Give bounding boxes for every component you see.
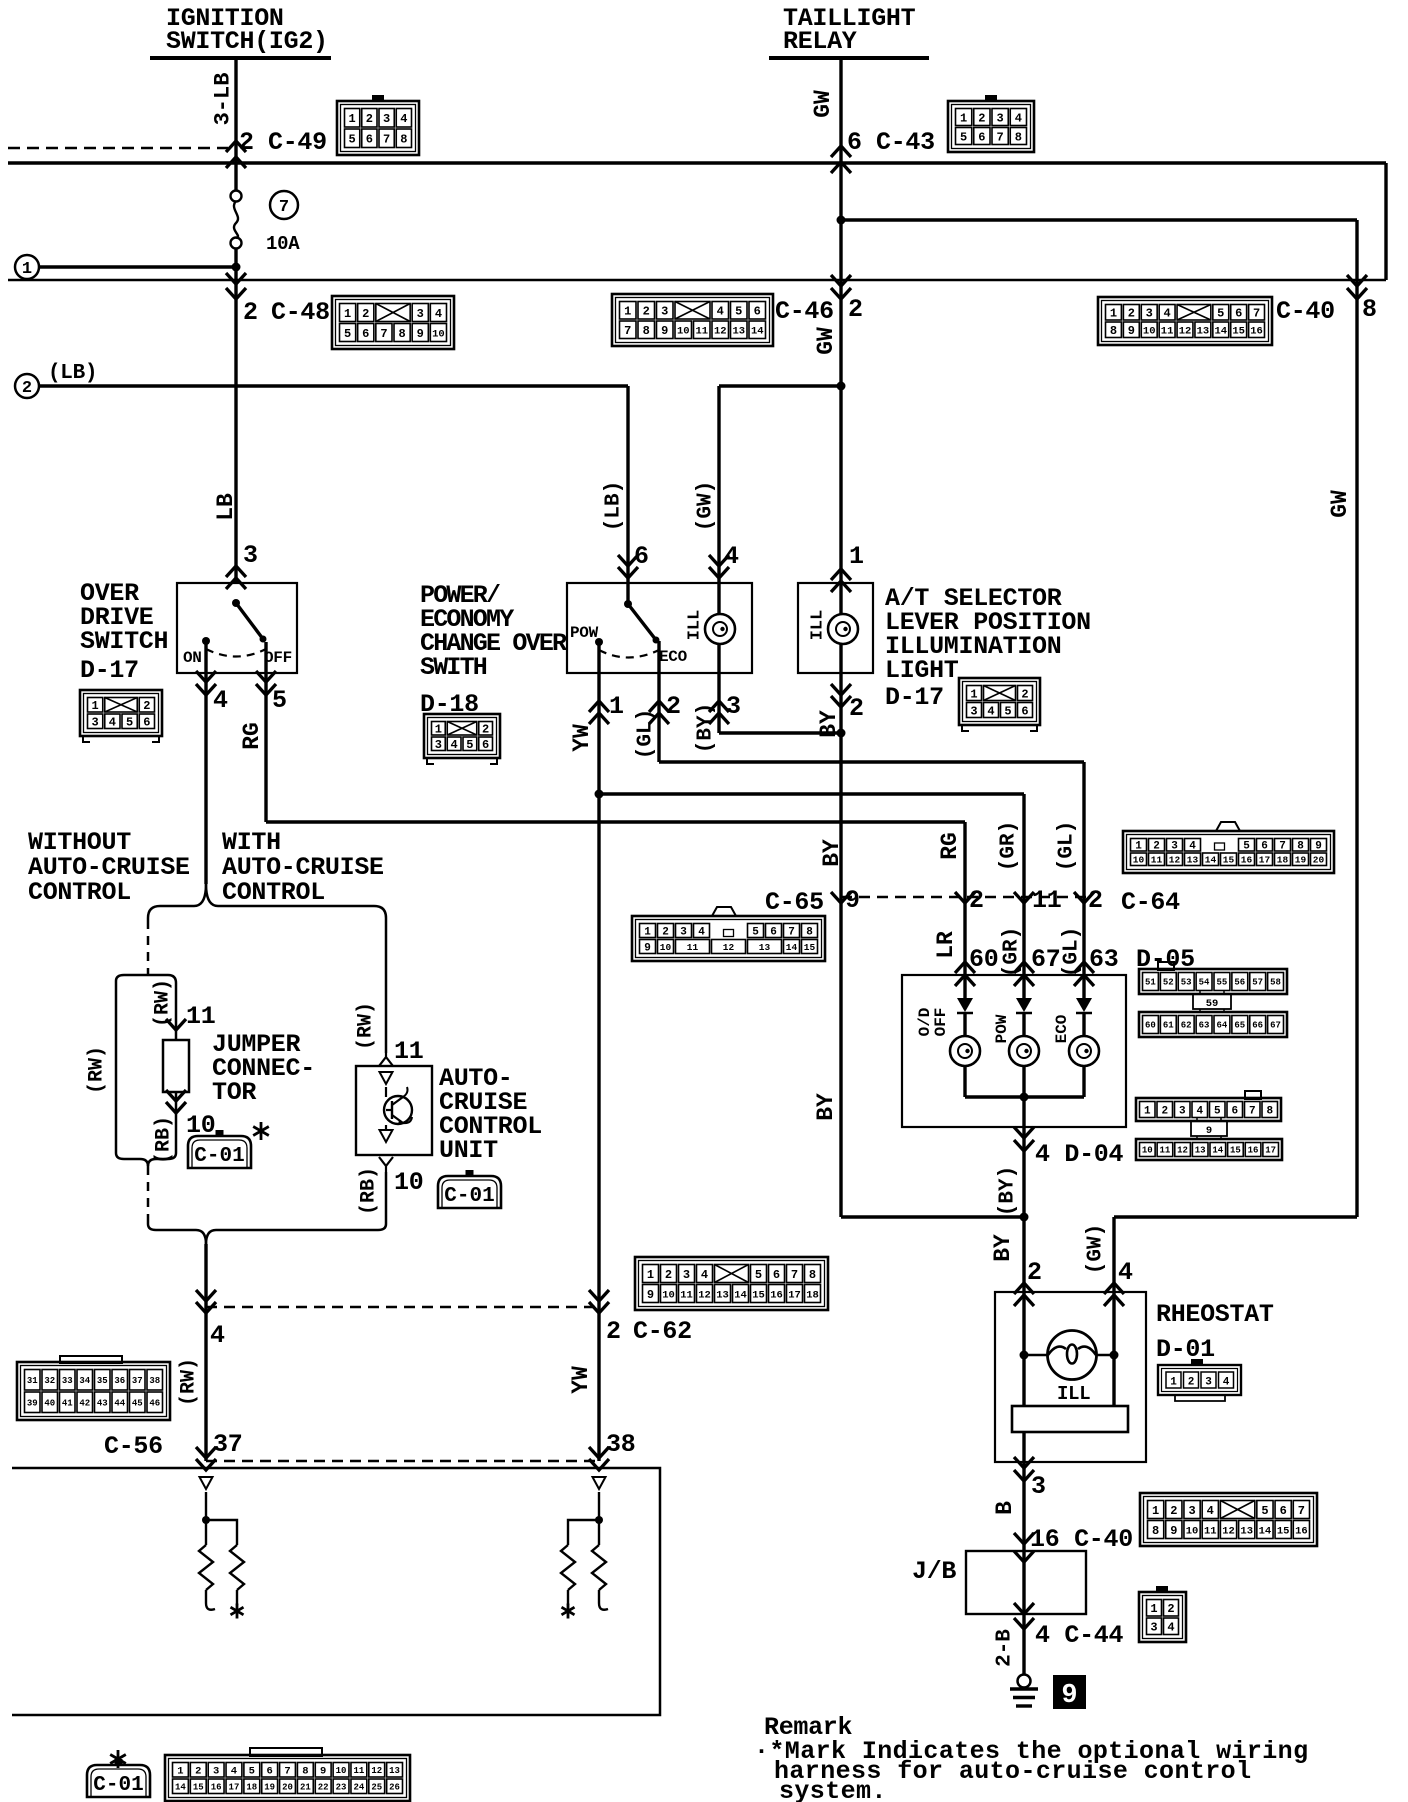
svg-text:52: 52 bbox=[1163, 978, 1174, 988]
svg-text:1: 1 bbox=[344, 307, 351, 321]
star terminal right bbox=[567, 1590, 569, 1605]
wire BY from A/T light pin 2 bbox=[839, 673, 842, 1217]
ECU internal wire pin 37 bbox=[205, 1492, 207, 1545]
rheostat resistor element bbox=[1022, 1355, 1025, 1406]
svg-text:3: 3 bbox=[1150, 1621, 1157, 1635]
svg-text:15: 15 bbox=[1230, 1146, 1241, 1156]
svg-text:5: 5 bbox=[1214, 1105, 1221, 1117]
jumper connector resistor body bbox=[163, 1040, 189, 1092]
wire BY horizontal to junction bbox=[841, 1215, 1024, 1218]
auto-cruise unit internal wire lower bbox=[385, 1125, 387, 1130]
junction GW at LB line bbox=[837, 382, 846, 391]
lamp ILL in A/T selector light bbox=[828, 614, 858, 644]
wire LB from fuse down to overdrive switch bbox=[234, 248, 237, 583]
svg-text:C-64: C-64 bbox=[1121, 888, 1180, 917]
svg-text:(RW): (RW) bbox=[355, 1002, 378, 1050]
pin 11 chevron bbox=[166, 1019, 186, 1030]
svg-text:63: 63 bbox=[1199, 1021, 1210, 1031]
svg-text:2: 2 bbox=[195, 1766, 201, 1778]
svg-text:34: 34 bbox=[79, 1376, 90, 1386]
pin 3 chevrons at rheostat bbox=[1014, 1457, 1034, 1468]
wire RG from overdrive OFF contact (pin 5) bbox=[264, 642, 267, 822]
svg-text:4: 4 bbox=[400, 112, 407, 126]
wire (GL) from ECO contact (pin 2) bbox=[657, 641, 660, 762]
svg-text:53: 53 bbox=[1181, 978, 1192, 988]
svg-text:1: 1 bbox=[644, 926, 651, 938]
svg-text:2: 2 bbox=[366, 112, 373, 126]
svg-text:3: 3 bbox=[997, 111, 1004, 125]
svg-text:1: 1 bbox=[1144, 1105, 1151, 1117]
junction indicator common bbox=[1020, 1093, 1029, 1102]
svg-text:36: 36 bbox=[114, 1376, 125, 1386]
svg-text:16 C-40: 16 C-40 bbox=[1030, 1525, 1133, 1554]
svg-text:15: 15 bbox=[1277, 1525, 1290, 1537]
overdrive switch dashed travel arc bbox=[206, 649, 266, 657]
svg-text:64: 64 bbox=[1217, 1021, 1228, 1031]
connector D-04 pin 9 box bbox=[1191, 1121, 1227, 1136]
svg-text:5: 5 bbox=[752, 926, 759, 938]
diode for ECO indicator bbox=[1076, 998, 1092, 1012]
svg-text:5: 5 bbox=[344, 327, 351, 341]
pin 4 chevrons bbox=[196, 671, 216, 682]
dashed harness line C-56 bbox=[206, 1460, 599, 1463]
svg-text:12: 12 bbox=[1169, 855, 1181, 866]
pin 10 chevrons bbox=[166, 1090, 186, 1101]
svg-text:YW: YW bbox=[569, 724, 595, 752]
svg-text:7: 7 bbox=[624, 324, 631, 338]
svg-text:4: 4 bbox=[451, 738, 458, 752]
overdrive switch pivot bbox=[232, 599, 240, 607]
svg-text:67: 67 bbox=[1270, 1021, 1281, 1031]
svg-text:OFF: OFF bbox=[264, 649, 292, 667]
pin 60 chevrons at D-05 bbox=[955, 962, 975, 973]
wire (GR) branch horizontal bbox=[599, 792, 1024, 795]
pin 1 chevrons bbox=[589, 701, 609, 712]
svg-text:9: 9 bbox=[320, 1766, 326, 1778]
svg-text:8: 8 bbox=[643, 324, 650, 338]
connector C-40 icon (second) bbox=[1140, 1493, 1317, 1546]
dashed harness line at C-49 bbox=[8, 147, 228, 150]
ground reference 9 black box bbox=[1053, 1675, 1086, 1709]
svg-text:10: 10 bbox=[394, 1168, 423, 1197]
svg-text:2: 2 bbox=[243, 298, 258, 327]
svg-text:6: 6 bbox=[482, 738, 489, 752]
svg-text:6: 6 bbox=[362, 327, 369, 341]
svg-text:TOR: TOR bbox=[212, 1078, 256, 1107]
svg-text:3: 3 bbox=[383, 112, 390, 126]
wire GW horizontal from right side bbox=[1114, 1215, 1357, 1218]
svg-text:18: 18 bbox=[806, 1289, 819, 1301]
svg-text:11: 11 bbox=[186, 1002, 215, 1031]
svg-text:56: 56 bbox=[1234, 978, 1245, 988]
svg-text:7: 7 bbox=[791, 1268, 798, 1282]
pin 6 chevrons at power/economy switch bbox=[618, 555, 638, 566]
wire B from rheostat pin 3 bbox=[1022, 1432, 1025, 1675]
svg-text:3-LB: 3-LB bbox=[211, 73, 236, 126]
svg-text:system.: system. bbox=[779, 1777, 887, 1802]
svg-text:13: 13 bbox=[1197, 326, 1210, 338]
svg-text:6: 6 bbox=[366, 133, 373, 147]
svg-text:54: 54 bbox=[1199, 978, 1210, 988]
svg-text:20: 20 bbox=[1313, 855, 1325, 866]
connector C-48 pin 2 chevrons bbox=[226, 273, 246, 284]
svg-text:4 C-44: 4 C-44 bbox=[1035, 1621, 1124, 1650]
resistor pull network left A bbox=[199, 1545, 213, 1590]
svg-text:B: B bbox=[992, 1501, 1018, 1515]
svg-text:(GR): (GR) bbox=[1001, 927, 1024, 977]
diode for POW indicator bbox=[1016, 998, 1032, 1012]
svg-text:8: 8 bbox=[1362, 295, 1377, 324]
ECU branch wire bbox=[206, 1520, 237, 1545]
svg-text:1: 1 bbox=[1150, 1602, 1157, 1616]
pin 67 chevrons at D-05 bbox=[1014, 962, 1034, 973]
power/economy dashed travel arc bbox=[599, 650, 659, 658]
wire GW right side vertical bbox=[1355, 220, 1358, 1217]
connector C-40 icon bbox=[1098, 297, 1272, 345]
wire (RW) dashed optional jumper branch bbox=[147, 920, 150, 975]
ECU internal wire pin 38 bbox=[598, 1492, 600, 1545]
svg-text:3: 3 bbox=[213, 1766, 219, 1778]
svg-text:9: 9 bbox=[647, 1288, 654, 1302]
junction lamp left bbox=[1020, 1351, 1029, 1360]
svg-text:2: 2 bbox=[22, 379, 32, 398]
svg-text:SWITH: SWITH bbox=[420, 653, 487, 682]
svg-text:1: 1 bbox=[970, 687, 977, 701]
svg-text:4: 4 bbox=[109, 716, 116, 730]
svg-text:42: 42 bbox=[79, 1398, 90, 1408]
svg-text:J/B: J/B bbox=[912, 1557, 956, 1586]
svg-text:11: 11 bbox=[1160, 1146, 1171, 1156]
svg-text:7: 7 bbox=[1298, 1504, 1305, 1518]
svg-text:14: 14 bbox=[1259, 1525, 1272, 1537]
svg-text:25: 25 bbox=[371, 1782, 382, 1792]
connector D-05 pin 59 box bbox=[1193, 994, 1231, 1009]
svg-text:2: 2 bbox=[666, 692, 681, 721]
svg-text:8: 8 bbox=[1297, 841, 1304, 853]
lamp wires inside box bbox=[839, 583, 842, 614]
fuse number circled 7 bbox=[270, 191, 298, 219]
svg-text:7: 7 bbox=[380, 327, 387, 341]
svg-text:24: 24 bbox=[353, 1782, 364, 1792]
connector C-56 icon bbox=[17, 1362, 170, 1420]
svg-text:19: 19 bbox=[264, 1782, 275, 1792]
svg-text:2: 2 bbox=[362, 307, 369, 321]
svg-text:LB: LB bbox=[213, 493, 239, 521]
svg-text:2: 2 bbox=[1161, 1105, 1168, 1117]
svg-text:4: 4 bbox=[231, 1766, 237, 1778]
connector C-40 pin 8 chevrons bbox=[1347, 275, 1367, 286]
svg-text:13: 13 bbox=[1240, 1525, 1253, 1537]
svg-text:1: 1 bbox=[349, 112, 356, 126]
connector C-46 pin 2 chevrons bbox=[831, 275, 851, 286]
wire 3-LB from ignition switch down to fuse bbox=[234, 58, 237, 191]
svg-text:D-01: D-01 bbox=[1156, 1335, 1215, 1364]
svg-text:5: 5 bbox=[960, 130, 967, 144]
connector D-01 icon bbox=[1158, 1359, 1241, 1401]
connector C-48 icon bbox=[332, 296, 454, 349]
jumper bracket bottom bbox=[116, 1148, 148, 1166]
bus line 2 bbox=[8, 279, 1386, 281]
svg-text:16: 16 bbox=[211, 1782, 222, 1792]
svg-text:4: 4 bbox=[1164, 307, 1171, 321]
svg-text:ECO: ECO bbox=[659, 648, 688, 666]
svg-text:C-01: C-01 bbox=[93, 1774, 143, 1797]
svg-text:33: 33 bbox=[62, 1376, 73, 1386]
pin 37 chevron bbox=[196, 1447, 216, 1458]
bus line right vertical bbox=[1384, 163, 1387, 280]
svg-text:55: 55 bbox=[1217, 978, 1228, 988]
svg-text:5: 5 bbox=[735, 305, 742, 319]
svg-text:61: 61 bbox=[1163, 1021, 1174, 1031]
svg-text:8: 8 bbox=[398, 327, 405, 341]
wire (GW) branch to illumination lamp pin 4 bbox=[719, 384, 841, 387]
pin 3 chevrons at overdrive switch bbox=[226, 566, 246, 577]
svg-text:31: 31 bbox=[27, 1376, 38, 1386]
wire from overdrive ON contact (pin 4) bbox=[204, 641, 207, 884]
svg-text:(BY): (BY) bbox=[997, 1166, 1020, 1216]
svg-text:D-17: D-17 bbox=[80, 656, 139, 685]
svg-text:13: 13 bbox=[716, 1289, 729, 1301]
svg-text:13: 13 bbox=[1195, 1146, 1206, 1156]
svg-text:12: 12 bbox=[723, 942, 735, 953]
wire POW indicator bbox=[1022, 975, 1025, 998]
svg-text:9: 9 bbox=[1170, 1524, 1177, 1538]
wire LB from node 2 to power/economy switch bbox=[39, 384, 628, 387]
pin 1 chevrons at A/T light bbox=[831, 569, 851, 580]
svg-text:9: 9 bbox=[1128, 324, 1135, 338]
svg-text:1: 1 bbox=[92, 699, 99, 713]
connector C-64 icon bbox=[1123, 822, 1334, 873]
svg-text:4: 4 bbox=[210, 1321, 225, 1350]
svg-text:2: 2 bbox=[1128, 307, 1135, 321]
svg-text:10: 10 bbox=[662, 1289, 675, 1301]
svg-text:18: 18 bbox=[1277, 855, 1289, 866]
svg-text:3: 3 bbox=[726, 692, 741, 721]
svg-text:RHEOSTAT: RHEOSTAT bbox=[1156, 1300, 1274, 1329]
svg-text:2: 2 bbox=[969, 886, 984, 915]
svg-text:60: 60 bbox=[1145, 1021, 1156, 1031]
svg-text:15: 15 bbox=[1223, 855, 1235, 866]
svg-text:11: 11 bbox=[1204, 1525, 1217, 1537]
svg-text:12: 12 bbox=[714, 326, 727, 338]
svg-text:13: 13 bbox=[759, 942, 771, 953]
svg-text:7: 7 bbox=[1253, 307, 1260, 321]
svg-text:1: 1 bbox=[1152, 1504, 1159, 1518]
lamp ECO indicator bbox=[1069, 1036, 1099, 1066]
svg-text:10: 10 bbox=[1143, 326, 1156, 338]
svg-text:3: 3 bbox=[970, 704, 977, 718]
svg-text:2-B: 2-B bbox=[994, 1629, 1017, 1667]
svg-text:51: 51 bbox=[1145, 978, 1156, 988]
connector C-49 pin 2 chevrons bbox=[226, 141, 246, 152]
svg-text:C-01: C-01 bbox=[444, 1185, 494, 1208]
svg-text:40: 40 bbox=[44, 1398, 55, 1408]
svg-text:11: 11 bbox=[353, 1766, 364, 1776]
ground symbol bbox=[1010, 1675, 1038, 1707]
svg-text:12: 12 bbox=[1179, 326, 1192, 338]
svg-text:3: 3 bbox=[92, 716, 99, 730]
svg-text:10: 10 bbox=[336, 1766, 347, 1776]
junction lamp right bbox=[1110, 1351, 1119, 1360]
pin 2 chevrons bbox=[649, 701, 669, 712]
svg-text:3: 3 bbox=[1188, 1504, 1195, 1518]
svg-text:5: 5 bbox=[1217, 307, 1224, 321]
wire (RB) from auto-cruise unit down to merge brace bbox=[385, 1172, 388, 1222]
svg-text:(LB): (LB) bbox=[603, 481, 626, 531]
svg-text:BY: BY bbox=[813, 1093, 839, 1121]
connector C-43 pin 6 chevrons bbox=[831, 146, 851, 157]
svg-text:9: 9 bbox=[661, 324, 668, 338]
svg-text:9: 9 bbox=[845, 886, 860, 915]
wire (RW) to jumper connector pin 11 bbox=[175, 983, 178, 1040]
svg-text:4 D-04: 4 D-04 bbox=[1035, 1140, 1124, 1169]
svg-text:2: 2 bbox=[1021, 687, 1028, 701]
svg-text:2: 2 bbox=[1170, 1504, 1177, 1518]
svg-text:17: 17 bbox=[1265, 1146, 1276, 1156]
pin 4 chevrons at D-04 bbox=[1014, 1127, 1034, 1138]
svg-text:(RW): (RW) bbox=[178, 1358, 201, 1406]
resistor pull network left B bbox=[230, 1545, 244, 1590]
svg-text:12: 12 bbox=[371, 1766, 382, 1776]
svg-text:4: 4 bbox=[698, 926, 705, 938]
pin 38 chevron bbox=[589, 1447, 609, 1458]
jumper bracket top bbox=[116, 975, 176, 992]
svg-text:37: 37 bbox=[213, 1430, 242, 1459]
svg-text:SWITCH(IG2): SWITCH(IG2) bbox=[166, 27, 328, 56]
wire merge brace bottom bbox=[148, 1222, 206, 1244]
svg-text:(BY): (BY) bbox=[695, 703, 718, 753]
rheostat D-01 box bbox=[995, 1292, 1146, 1462]
svg-text:4: 4 bbox=[987, 704, 994, 718]
svg-text:2: 2 bbox=[849, 694, 864, 723]
svg-text:1: 1 bbox=[609, 692, 624, 721]
svg-text:(RB): (RB) bbox=[358, 1167, 381, 1215]
svg-text:C-48: C-48 bbox=[271, 298, 330, 327]
svg-text:5: 5 bbox=[249, 1766, 255, 1778]
lamp A/T SELECTOR LEVER POSITION ILLUMINATION LIGHT box D-17 bbox=[798, 583, 873, 673]
svg-text:D-17: D-17 bbox=[885, 683, 944, 712]
svg-text:21: 21 bbox=[300, 1782, 311, 1792]
svg-text:66: 66 bbox=[1252, 1021, 1263, 1031]
svg-text:3: 3 bbox=[1031, 1472, 1046, 1501]
svg-text:6: 6 bbox=[1280, 1504, 1287, 1518]
svg-text:14: 14 bbox=[786, 942, 798, 953]
svg-text:(GL): (GL) bbox=[1061, 927, 1084, 977]
wire (GL) horizontal run bbox=[659, 760, 1084, 763]
svg-text:3: 3 bbox=[680, 926, 687, 938]
svg-text:58: 58 bbox=[1270, 978, 1281, 988]
power/economy POW contact bbox=[595, 638, 603, 646]
svg-text:C-49: C-49 bbox=[268, 128, 327, 157]
svg-text:4: 4 bbox=[1167, 1621, 1174, 1635]
ECU pin 38 input triangle bbox=[593, 1477, 606, 1489]
wire (RW) merged down to ECU pin 37 bbox=[204, 1244, 207, 1461]
svg-text:11: 11 bbox=[394, 1037, 423, 1066]
svg-text:1: 1 bbox=[435, 723, 442, 737]
lamp POW indicator bbox=[1009, 1036, 1039, 1066]
svg-text:10: 10 bbox=[1186, 1525, 1199, 1537]
wire (BY) run to BY junction bbox=[719, 731, 841, 734]
svg-text:2: 2 bbox=[643, 305, 650, 319]
svg-text:63: 63 bbox=[1089, 945, 1118, 974]
fuse 7 10A bbox=[231, 191, 242, 249]
svg-text:GW: GW bbox=[813, 327, 839, 355]
pin 4 chevrons at C-44 bbox=[1014, 1603, 1034, 1614]
svg-text:16: 16 bbox=[770, 1289, 783, 1301]
svg-text:14: 14 bbox=[734, 1289, 747, 1301]
junction YW branch to POW indicator bbox=[595, 790, 604, 799]
svg-text:6: 6 bbox=[266, 1766, 272, 1778]
pin 9 chevron and label bbox=[831, 892, 851, 903]
svg-text:4: 4 bbox=[1015, 111, 1022, 125]
svg-text:BY: BY bbox=[990, 1234, 1016, 1262]
junction ECU pin 38 bbox=[595, 1516, 603, 1524]
svg-text:C-01: C-01 bbox=[194, 1145, 244, 1168]
svg-text:9: 9 bbox=[417, 327, 424, 341]
svg-text:4: 4 bbox=[1207, 1504, 1214, 1518]
connector C-46 icon bbox=[612, 294, 773, 346]
ignition switch feed bar bbox=[150, 56, 331, 60]
svg-text:ON: ON bbox=[183, 649, 202, 667]
dashed harness line C-62 bbox=[206, 1306, 599, 1309]
lamp O/D OFF indicator bbox=[950, 1036, 980, 1066]
svg-text:11: 11 bbox=[1151, 855, 1163, 866]
wire (BY) from indicator common (pin 4 D-04) bbox=[1022, 1097, 1025, 1217]
svg-text:7: 7 bbox=[788, 926, 795, 938]
svg-text:6: 6 bbox=[1021, 704, 1028, 718]
transistor in auto-cruise unit bbox=[384, 1087, 412, 1125]
indicator common bus bbox=[965, 1095, 1084, 1098]
svg-text:14: 14 bbox=[175, 1782, 186, 1792]
svg-text:26: 26 bbox=[389, 1782, 400, 1792]
svg-text:(RW): (RW) bbox=[152, 979, 175, 1027]
pin 5 chevrons bbox=[256, 671, 276, 682]
svg-text:6: 6 bbox=[634, 542, 649, 571]
svg-text:3: 3 bbox=[683, 1268, 690, 1282]
svg-text:ILL: ILL bbox=[686, 610, 705, 641]
svg-text:45: 45 bbox=[132, 1398, 143, 1408]
wire RG horizontal run bbox=[266, 820, 965, 823]
svg-text:15: 15 bbox=[1232, 326, 1245, 338]
svg-text:14: 14 bbox=[1214, 326, 1227, 338]
svg-text:32: 32 bbox=[44, 1376, 55, 1386]
wire GW branch to right side bbox=[841, 218, 1357, 221]
svg-text:6: 6 bbox=[978, 130, 985, 144]
svg-text:1: 1 bbox=[22, 260, 32, 279]
svg-text:2: 2 bbox=[1188, 1377, 1195, 1389]
svg-text:3: 3 bbox=[417, 307, 424, 321]
pin 16 chevrons at C-40 bbox=[1014, 1533, 1034, 1544]
svg-text:(LB): (LB) bbox=[48, 362, 97, 385]
connector C-01 icon (bottom) bbox=[87, 1750, 150, 1797]
svg-text:4: 4 bbox=[1189, 841, 1196, 853]
svg-text:1: 1 bbox=[1135, 841, 1142, 853]
svg-text:2: 2 bbox=[606, 1317, 621, 1346]
switch D-17 OVER DRIVE SWITCH box bbox=[177, 583, 297, 673]
svg-text:11: 11 bbox=[1161, 326, 1174, 338]
wire GW from taillight relay down to A/T illumination light bbox=[839, 58, 842, 583]
svg-text:13: 13 bbox=[389, 1766, 400, 1776]
svg-text:19: 19 bbox=[1295, 855, 1307, 866]
svg-text:17: 17 bbox=[788, 1289, 801, 1301]
svg-text:16: 16 bbox=[1241, 855, 1253, 866]
svg-text:(GR): (GR) bbox=[998, 821, 1021, 871]
pin 2 chevron and label at C-64 bbox=[1074, 892, 1094, 903]
connector C-65 icon bbox=[632, 907, 825, 961]
connector C-01 icon (26 pin) bbox=[165, 1755, 410, 1801]
connector C-44 icon bbox=[1139, 1586, 1186, 1642]
svg-text:7: 7 bbox=[997, 130, 1004, 144]
